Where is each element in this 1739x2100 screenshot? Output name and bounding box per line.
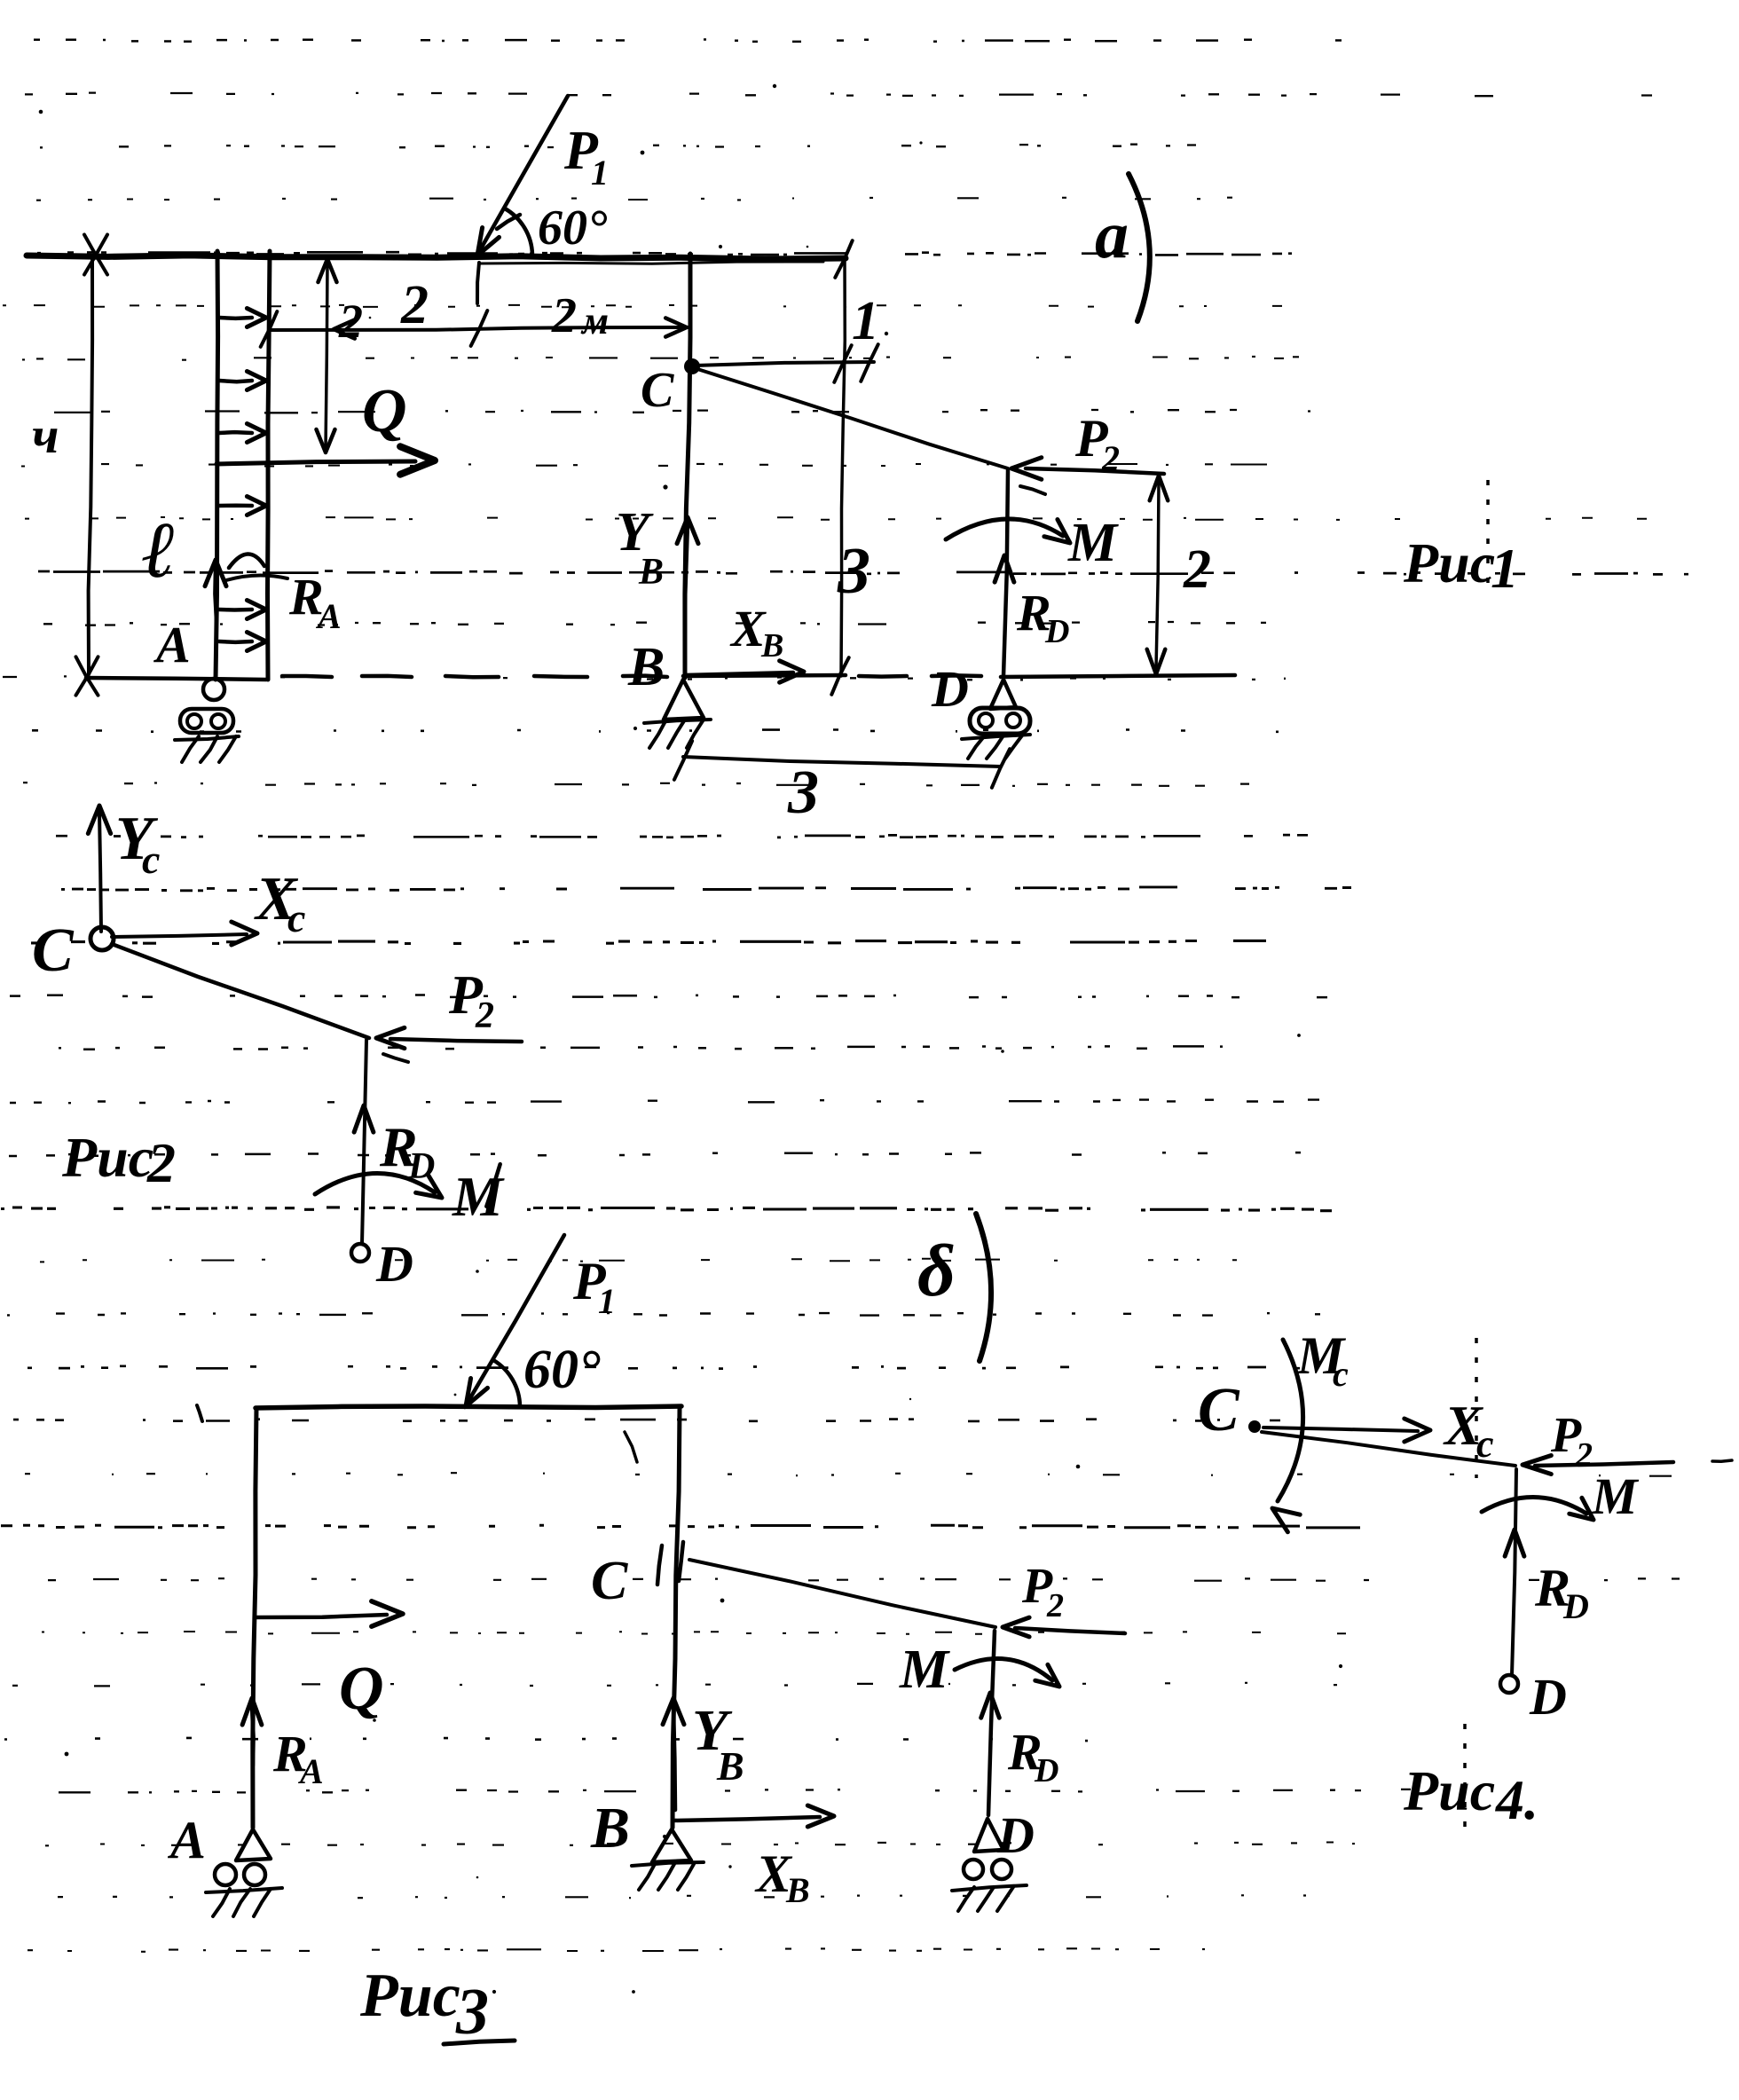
svg-text:B: B	[760, 627, 783, 665]
svg-text:2: 2	[1101, 438, 1120, 478]
svg-text:Рис: Рис	[359, 1962, 460, 2030]
svg-text:B: B	[638, 552, 664, 593]
svg-text:Q: Q	[339, 1655, 384, 1723]
svg-text:C: C	[32, 916, 75, 985]
svg-text:ℓ: ℓ	[142, 507, 176, 594]
svg-text:м: м	[580, 299, 609, 342]
svg-text:D: D	[1044, 613, 1069, 650]
svg-text:A: A	[167, 1811, 206, 1869]
svg-text:1: 1	[1491, 537, 1519, 600]
svg-text:2: 2	[1183, 539, 1211, 600]
svg-text:D: D	[931, 660, 969, 718]
svg-text:A: A	[153, 616, 191, 673]
svg-text:Рис: Рис	[1403, 531, 1495, 594]
svg-text:D: D	[996, 1806, 1035, 1864]
svg-text:2: 2	[475, 995, 494, 1036]
svg-text:3: 3	[837, 535, 870, 608]
svg-text:A: A	[297, 1751, 324, 1791]
svg-text:2: 2	[400, 275, 429, 335]
svg-text:60°: 60°	[523, 1340, 601, 1400]
svg-text:M: M	[1067, 513, 1119, 573]
svg-text:60°: 60°	[538, 201, 608, 256]
svg-text:2: 2	[146, 1131, 176, 1194]
svg-text:a: a	[1095, 198, 1129, 272]
svg-text:B: B	[590, 1796, 630, 1860]
svg-text:D: D	[375, 1235, 413, 1293]
svg-text:Q: Q	[362, 377, 407, 445]
svg-text:ч: ч	[32, 406, 59, 464]
svg-text:Рис: Рис	[61, 1126, 153, 1189]
svg-text:1: 1	[598, 1281, 616, 1321]
svg-text:D: D	[1034, 1752, 1058, 1789]
svg-text:D: D	[1562, 1586, 1589, 1626]
svg-text:2: 2	[1046, 1587, 1064, 1624]
svg-text:C: C	[591, 1551, 628, 1611]
svg-text:2: 2	[551, 288, 577, 343]
svg-text:1: 1	[591, 153, 609, 193]
svg-text:2: 2	[1575, 1436, 1593, 1474]
svg-text:4.: 4.	[1495, 1768, 1538, 1831]
svg-text:δ: δ	[917, 1230, 956, 1312]
svg-text:C: C	[641, 363, 674, 418]
svg-text:D: D	[1529, 1668, 1567, 1726]
svg-text:1: 1	[852, 291, 879, 351]
svg-text:B: B	[785, 1870, 810, 1910]
svg-text:Рис: Рис	[1403, 1759, 1495, 1822]
svg-text:3: 3	[455, 1976, 489, 2049]
svg-text:B: B	[716, 1743, 744, 1789]
svg-text:C: C	[1198, 1376, 1240, 1444]
svg-text:M: M	[899, 1640, 950, 1700]
svg-text:A: A	[315, 596, 342, 636]
svg-text:3: 3	[787, 759, 819, 827]
svg-text:B: B	[627, 637, 665, 697]
svg-text:M: M	[1591, 1467, 1640, 1525]
svg-text:c: c	[1333, 1354, 1349, 1394]
svg-text:c: c	[287, 895, 305, 940]
svg-text:c: c	[142, 837, 160, 882]
svg-text:c: c	[1476, 1422, 1494, 1466]
